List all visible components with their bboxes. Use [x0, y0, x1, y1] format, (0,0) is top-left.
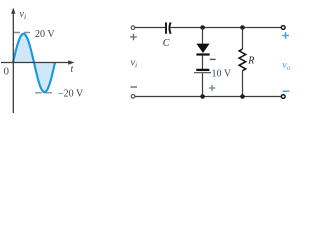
battery plus label [209, 85, 215, 91]
input plus [130, 34, 137, 41]
svg-text:−20 V: −20 V [58, 89, 84, 100]
junction node bottom diode [200, 94, 205, 99]
svg-text:10 V: 10 V [212, 69, 232, 80]
diode D (anode top, pointing down) [196, 44, 209, 53]
resistor stub bottom [242, 71, 244, 97]
wire top mid [171, 27, 282, 29]
svg-text:t: t [71, 64, 74, 75]
wire bottom [135, 96, 281, 98]
svg-text:R: R [247, 56, 254, 67]
sine fill vi waveform [13, 34, 55, 93]
minus label at diode/battery [210, 58, 216, 60]
svg-text:20 V: 20 V [35, 29, 55, 40]
t axis [1, 62, 69, 64]
wire top left [135, 27, 165, 29]
output plus (blue) [282, 32, 289, 39]
output terminal bottom [281, 95, 285, 99]
capacitor C left plate [165, 22, 167, 33]
wire diode stub [202, 28, 204, 44]
wire cathode to battery [202, 56, 204, 69]
v axis [12, 12, 14, 113]
battery negative plate (short thick) [196, 69, 209, 71]
input terminal top [131, 26, 135, 30]
svg-text:C: C [163, 38, 170, 49]
input minus [131, 86, 138, 88]
junction node top resistor [240, 25, 245, 30]
capacitor C right plate [169, 22, 170, 33]
junction node bottom resistor [240, 94, 245, 99]
resistor stub top [242, 28, 244, 50]
junction node top diode [200, 25, 205, 30]
diode cathode bar [196, 53, 209, 55]
output terminal top [281, 26, 285, 30]
svg-text:0: 0 [4, 66, 10, 78]
dashed line -20V [35, 92, 55, 94]
sine stroke vi waveform [13, 34, 55, 93]
battery positive plate (long thin) [194, 72, 211, 74]
output minus (blue) [283, 90, 290, 92]
input terminal bottom [131, 95, 135, 99]
resistor R zigzag [239, 49, 246, 71]
dashed line +20V [14, 32, 34, 34]
wire battery to bottom [202, 73, 204, 96]
